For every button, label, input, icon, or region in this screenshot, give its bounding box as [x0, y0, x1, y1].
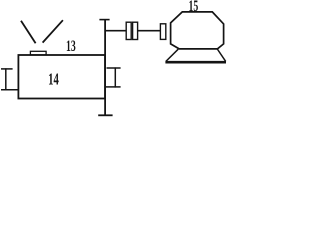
svg-text:15: 15: [189, 0, 199, 14]
svg-text:13: 13: [66, 37, 76, 55]
svg-text:14: 14: [48, 70, 59, 89]
